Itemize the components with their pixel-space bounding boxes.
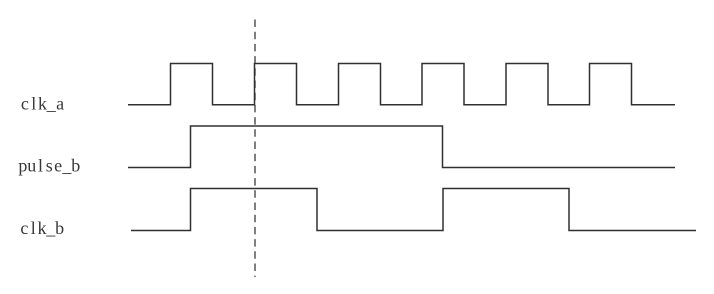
svg-text:pulse_b: pulse_b bbox=[18, 156, 80, 176]
svg-text:clk_b: clk_b bbox=[20, 218, 64, 238]
svg-text:clk_a: clk_a bbox=[21, 94, 64, 114]
